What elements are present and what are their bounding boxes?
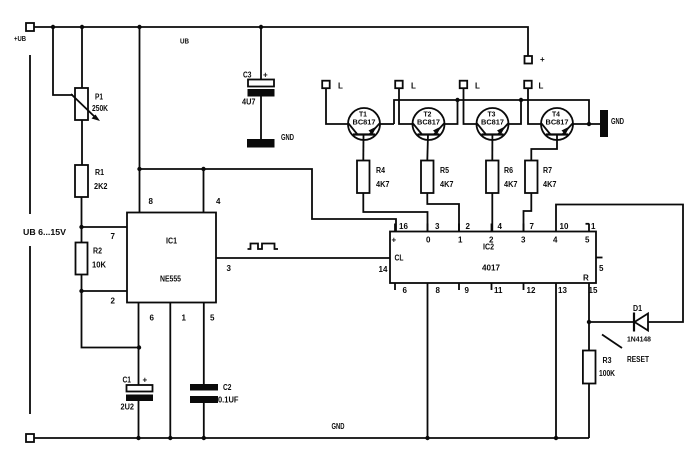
potentiometer P1 xyxy=(75,88,88,120)
wire to IC1 pin 2 xyxy=(82,290,128,292)
IC2 pin 1 stub xyxy=(588,224,590,232)
svg-text:4017: 4017 xyxy=(482,264,501,273)
IC2 pin 6 stub xyxy=(394,283,396,290)
wire L3 to T3 collector xyxy=(464,88,477,124)
svg-text:R3: R3 xyxy=(603,356,612,365)
resistor R1 2K2 xyxy=(75,165,88,197)
svg-text:16: 16 xyxy=(399,222,408,231)
svg-text:11: 11 xyxy=(494,286,503,295)
wire IC1 pin1 to rail xyxy=(169,303,171,439)
svg-text:1N4148: 1N4148 xyxy=(627,335,651,344)
svg-text:R6: R6 xyxy=(504,166,513,175)
svg-text:5: 5 xyxy=(210,314,215,323)
wire C1 to gnd rail xyxy=(138,401,140,438)
node bus-T4 emitter xyxy=(587,122,591,126)
svg-text:4K7: 4K7 xyxy=(543,180,557,189)
svg-text:L: L xyxy=(338,82,343,91)
svg-text:15: 15 xyxy=(589,286,598,295)
IC1 NE555 xyxy=(127,213,216,303)
wire top +UB rail xyxy=(34,27,528,56)
terminal + (LED supply) xyxy=(525,56,533,64)
wire R2 bottom to pin6 node xyxy=(82,275,140,348)
svg-text:R2: R2 xyxy=(93,247,102,256)
resistor R2 10K xyxy=(76,243,88,275)
svg-text:2: 2 xyxy=(466,222,471,231)
svg-text:4K7: 4K7 xyxy=(376,180,390,189)
wire L1 to T1 collector xyxy=(326,88,348,124)
svg-text:10: 10 xyxy=(560,222,569,231)
wire UB rail to C3 xyxy=(260,27,262,80)
svg-text:2: 2 xyxy=(489,236,494,245)
svg-text:R: R xyxy=(583,274,589,283)
wire IC1 pin6 to C1 xyxy=(138,303,140,386)
svg-text:100K: 100K xyxy=(599,369,615,378)
resistor R3 100K xyxy=(583,351,596,384)
svg-text:P1: P1 xyxy=(95,93,103,102)
svg-text:3: 3 xyxy=(227,264,232,273)
wire P1 to R1 xyxy=(81,120,83,165)
wire IC2 pin15 down xyxy=(588,283,590,351)
terminal +UB xyxy=(26,23,34,31)
svg-text:6: 6 xyxy=(403,286,408,295)
svg-text:9: 9 xyxy=(465,286,470,295)
resistor R6 4K7 xyxy=(486,161,499,194)
svg-text:6: 6 xyxy=(150,314,155,323)
svg-text:2: 2 xyxy=(111,297,116,306)
node rail-C3 xyxy=(259,25,263,29)
IC2 pin 3 stub xyxy=(427,224,429,232)
svg-text:BC817: BC817 xyxy=(417,118,440,127)
IC2 pin 11 stub xyxy=(491,283,493,290)
wire L2 to T2 collector xyxy=(399,88,413,124)
node C1-rail xyxy=(136,436,140,440)
IC2 pin 10 stub xyxy=(555,224,557,232)
svg-text:3: 3 xyxy=(521,236,526,245)
squarewave symbol xyxy=(248,244,279,250)
svg-text:2U2: 2U2 xyxy=(121,403,135,412)
wire T2 emitter xyxy=(445,100,458,124)
svg-text:UB 6...15V: UB 6...15V xyxy=(23,228,67,237)
svg-text:0.1UF: 0.1UF xyxy=(218,396,239,405)
wire VCC trunk to IC1 pin 8 xyxy=(139,27,141,213)
node pin1-rail xyxy=(168,436,172,440)
svg-text:BC817: BC817 xyxy=(546,118,569,127)
wire T1 base to R4 xyxy=(362,135,364,161)
svg-text:4: 4 xyxy=(553,236,558,245)
wire IC2 pin13 to rail xyxy=(555,283,557,438)
svg-text:5: 5 xyxy=(599,264,604,273)
wire T3 base to R6 xyxy=(491,135,493,161)
IC2 pin 4 stub xyxy=(491,224,493,232)
svg-text:1: 1 xyxy=(591,222,596,231)
svg-text:C3: C3 xyxy=(243,71,252,80)
resistor R7 4K7 xyxy=(525,161,538,194)
IC2 pin 9 stub xyxy=(458,283,460,290)
svg-text:C1: C1 xyxy=(123,376,132,385)
node pin13-rail xyxy=(554,436,558,440)
wire C2 to rail xyxy=(203,403,205,438)
reset annotation line xyxy=(602,335,622,349)
capacitor C2 0.1UF xyxy=(190,384,218,391)
svg-text:R1: R1 xyxy=(95,168,104,177)
svg-text:IC1: IC1 xyxy=(166,237,177,246)
supply span marker line xyxy=(29,55,31,214)
transistor T4 BC817 xyxy=(541,108,573,140)
svg-text:R7: R7 xyxy=(543,166,552,175)
node pin15-D1-R3 xyxy=(587,320,591,324)
svg-text:1: 1 xyxy=(182,314,187,323)
ground symbol (emitters) xyxy=(600,110,608,137)
svg-text:5: 5 xyxy=(585,236,590,245)
svg-text:R4: R4 xyxy=(376,166,385,175)
wire R5 to IC2 pin2 xyxy=(427,193,459,232)
node pin2 junction xyxy=(79,289,83,293)
svg-text:10K: 10K xyxy=(92,261,106,270)
svg-text:14: 14 xyxy=(379,265,388,274)
svg-text:UB: UB xyxy=(180,37,189,46)
capacitor C1 2U2 xyxy=(127,385,153,392)
wire VCC branch to IC2 pin16 xyxy=(140,169,397,232)
svg-text:+: + xyxy=(392,236,397,245)
wire IC2 pin8 to rail xyxy=(427,283,429,438)
wire IC2 pin10 to D1 anode xyxy=(556,205,683,323)
svg-text:R5: R5 xyxy=(440,166,449,175)
svg-text:8: 8 xyxy=(436,286,441,295)
svg-text:7: 7 xyxy=(530,222,535,231)
svg-text:3: 3 xyxy=(435,222,440,231)
wire R3 to rail xyxy=(588,384,590,439)
wire IC1 pin5 to C2 xyxy=(203,303,205,385)
wire L4 to T4 collector xyxy=(528,88,541,124)
IC2 pin 16 stub xyxy=(394,224,396,232)
wire T1 emitter xyxy=(380,123,394,125)
wire D1 cathode to pin15 node xyxy=(589,321,634,323)
LED terminal L3 xyxy=(460,81,468,89)
wire T2 base to R5 xyxy=(426,135,429,161)
svg-text:GND: GND xyxy=(332,422,345,431)
svg-text:L: L xyxy=(539,82,544,91)
wire T4 emitter to GND xyxy=(573,123,600,125)
LED terminal L4 xyxy=(524,81,532,89)
wire R1 to R2 xyxy=(81,197,83,243)
node T2 emitter-bus xyxy=(455,98,459,102)
wire rail to P1 top xyxy=(81,27,83,88)
svg-text:12: 12 xyxy=(527,286,536,295)
wire rail to P1 wiper xyxy=(53,27,73,95)
svg-text:RESET: RESET xyxy=(627,355,649,364)
terminal GND xyxy=(26,434,34,442)
transistor T2 BC817 xyxy=(413,108,445,140)
svg-text:13: 13 xyxy=(558,286,567,295)
svg-text:CL: CL xyxy=(395,254,404,263)
svg-text:+: + xyxy=(143,376,148,385)
ground rail xyxy=(34,437,589,439)
transistor T3 BC817 xyxy=(477,108,509,140)
LED terminal L1 xyxy=(322,81,330,89)
svg-text:NE555: NE555 xyxy=(160,275,181,284)
svg-text:D1: D1 xyxy=(633,304,642,313)
emitter bus wire xyxy=(394,100,589,124)
wire IC1 pin3 to IC2 CL xyxy=(216,257,390,259)
svg-text:4: 4 xyxy=(216,197,221,206)
svg-text:L: L xyxy=(475,82,480,91)
node C2-rail xyxy=(202,436,206,440)
svg-text:2K2: 2K2 xyxy=(94,182,108,191)
transistor T1 BC817 xyxy=(348,108,380,140)
svg-text:L: L xyxy=(411,82,416,91)
capacitor C3 4U7 xyxy=(248,80,274,87)
resistor R4 4K7 xyxy=(357,161,370,194)
diode D1 1N4148 xyxy=(635,314,649,331)
svg-text:250K: 250K xyxy=(92,104,108,113)
IC2 4017 xyxy=(390,232,596,284)
node rail-P1wiper xyxy=(51,25,55,29)
wire to IC1 pin 7 xyxy=(82,226,128,228)
wire T3 emitter xyxy=(509,100,522,124)
LED terminal L2 xyxy=(395,81,403,89)
IC2 right pin5 stub xyxy=(596,257,603,259)
svg-text:+UB: +UB xyxy=(14,34,26,43)
svg-text:BC817: BC817 xyxy=(481,118,504,127)
IC2 pin 2 stub xyxy=(458,224,460,232)
wire R7 to IC2 pin7 xyxy=(524,193,532,232)
IC2 pin 12 stub xyxy=(523,283,525,290)
wire T4 base to R7 (jog) xyxy=(531,135,557,161)
node rail-VCC trunk xyxy=(137,25,141,29)
node pin4 branch xyxy=(201,167,205,171)
svg-text:GND: GND xyxy=(281,133,294,142)
node VCC branch xyxy=(137,167,141,171)
svg-text:4: 4 xyxy=(498,222,503,231)
IC2 pin 7 stub xyxy=(523,224,525,232)
node R2-C1 junction xyxy=(137,345,141,349)
svg-text:0: 0 xyxy=(426,236,431,245)
svg-text:7: 7 xyxy=(111,232,116,241)
svg-text:GND: GND xyxy=(611,117,624,126)
svg-text:4U7: 4U7 xyxy=(242,98,256,107)
node pin7 junction xyxy=(79,225,83,229)
svg-text:8: 8 xyxy=(149,197,154,206)
wire C3 to ground symbol xyxy=(260,97,262,140)
node pin8-rail xyxy=(425,436,429,440)
wire R4 to IC2 pin3 xyxy=(363,193,427,232)
svg-text:C2: C2 xyxy=(223,383,232,392)
svg-text:BC817: BC817 xyxy=(353,118,376,127)
svg-text:+: + xyxy=(540,55,545,64)
svg-text:+: + xyxy=(263,71,268,80)
wire R6 to IC2 pin4 xyxy=(491,193,493,232)
wire to IC1 pin 4 xyxy=(203,169,205,213)
node T3 emitter-bus xyxy=(519,98,523,102)
svg-text:4K7: 4K7 xyxy=(504,180,518,189)
resistor R5 4K7 xyxy=(421,161,434,194)
svg-text:4K7: 4K7 xyxy=(440,180,454,189)
ground symbol (C3) xyxy=(247,139,275,148)
svg-text:1: 1 xyxy=(458,236,463,245)
node rail-P1top xyxy=(80,25,84,29)
